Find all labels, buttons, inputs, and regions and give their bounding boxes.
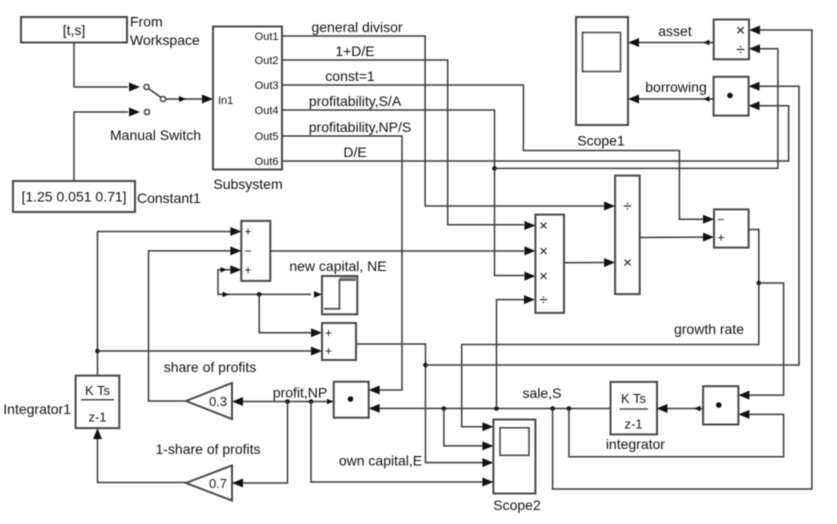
wire gain 0.3 output to sum1 input2	[149, 251, 231, 401]
wire profit product output to gain 0.3 input	[243, 399, 334, 404]
block sum3 minus plus	[703, 209, 749, 247]
wire Out3 const=1 to sum3 minus input	[282, 85, 703, 219]
svg-text:+: +	[244, 263, 251, 277]
svg-text:Out4: Out4	[255, 105, 279, 117]
svg-text:Workspace: Workspace	[130, 32, 200, 48]
wire sale branch up to product4 divide input	[497, 295, 536, 408]
svg-text:[t,s]: [t,s]	[63, 22, 86, 38]
svg-text:Manual Switch: Manual Switch	[110, 127, 201, 143]
node growth rate branch	[757, 281, 762, 286]
svg-text:×: ×	[539, 243, 548, 260]
block new capital NE step	[322, 276, 357, 314]
manual switch	[110, 83, 201, 144]
svg-text:×: ×	[539, 268, 548, 285]
node S/A branch	[492, 166, 497, 171]
svg-text:×: ×	[736, 23, 745, 40]
svg-text:Scope1: Scope1	[577, 133, 625, 149]
block sum2 plus plus	[322, 323, 356, 360]
block From Workspace [t,s]	[21, 14, 200, 49]
svg-text:Out6: Out6	[255, 156, 279, 168]
wire own capital E to borrowing product upper input	[426, 86, 800, 365]
svg-text:z-1: z-1	[88, 410, 106, 425]
wire growth rate branch to dot product upper input	[749, 283, 783, 395]
block integrator K Ts z-1	[606, 382, 668, 452]
svg-text:share of profits: share of profits	[164, 359, 257, 375]
svg-text:new capital, NE: new capital, NE	[289, 258, 386, 274]
node sale branch to feedback	[567, 406, 572, 411]
svg-text:growth rate: growth rate	[674, 321, 744, 337]
wire Integrator1 output up to sum1 input1	[98, 232, 231, 376]
wire sum1 output to product4 input2	[270, 250, 524, 252]
node Integrator1 output branch	[95, 349, 100, 354]
svg-text:Out2: Out2	[255, 55, 279, 67]
svg-text:Constant1: Constant1	[137, 190, 201, 206]
block Scope2	[482, 420, 541, 514]
svg-text:Out1: Out1	[255, 31, 279, 43]
wire dot product output to integrator input	[668, 406, 704, 412]
svg-text:÷: ÷	[539, 292, 547, 309]
wire gain 0.7 output to Integrator1 input	[98, 439, 187, 483]
svg-text:general divisor: general divisor	[311, 19, 402, 35]
node new capital junction	[257, 292, 262, 297]
svg-text:profit,NP: profit,NP	[273, 385, 327, 401]
block profit product dot	[334, 382, 380, 418]
wire sale feedback to dot product lower input	[569, 409, 784, 457]
wire sum2 output to own capital E node	[356, 344, 482, 463]
svg-text:+: +	[717, 230, 724, 244]
svg-text:−: −	[717, 212, 724, 226]
svg-text:1-share of profits: 1-share of profits	[155, 441, 260, 457]
wire Out5 NP/S to profit product upper input	[282, 136, 402, 390]
svg-text:+: +	[244, 225, 251, 239]
node sale branch to asset	[550, 406, 555, 411]
svg-text:z-1: z-1	[624, 417, 642, 432]
svg-text:From: From	[130, 14, 163, 30]
wire sum1 input3 from new capital node	[218, 267, 322, 298]
wire Out6 D/E to borrowing product lower input	[282, 106, 789, 161]
svg-text:×: ×	[539, 218, 548, 235]
svg-text:borrowing: borrowing	[645, 79, 706, 95]
svg-text:Integrator1: Integrator1	[3, 401, 71, 417]
svg-text:K Ts: K Ts	[621, 391, 647, 406]
gain 0.3 triangle	[186, 383, 243, 419]
wire Constant1 to switch lower input	[74, 112, 128, 181]
node sale branch to Scope2	[442, 406, 447, 411]
wire Out2 1+D/E to product4 input1	[282, 60, 524, 225]
svg-text:profitability,S/A: profitability,S/A	[309, 93, 402, 109]
svg-text:+: +	[325, 344, 332, 358]
gain 0.7 triangle	[186, 466, 243, 501]
block Scope1	[576, 17, 628, 149]
wire Integrator1 branch to sum2 input2	[98, 347, 323, 356]
svg-text:Out5: Out5	[255, 131, 279, 143]
block asset product x/	[714, 20, 760, 60]
svg-text:1+D/E: 1+D/E	[335, 43, 374, 59]
block sale dot product	[703, 386, 749, 424]
svg-text:÷: ÷	[736, 42, 745, 59]
node own capital E branch	[423, 363, 428, 368]
svg-text:×: ×	[623, 254, 632, 271]
wire sum3 output growth rate	[462, 230, 759, 427]
svg-text:Subsystem: Subsystem	[213, 176, 282, 192]
svg-text:sale,S: sale,S	[523, 385, 562, 401]
node profit to Scope2 branch	[309, 399, 314, 404]
svg-text:own capital,E: own capital,E	[339, 453, 422, 469]
svg-text:0.7: 0.7	[209, 476, 227, 491]
block divide tall	[604, 176, 640, 295]
block Subsystem	[213, 27, 283, 193]
svg-text:+: +	[325, 326, 332, 340]
svg-text:D/E: D/E	[343, 144, 366, 160]
wire divide block output to sum3 plus input	[640, 233, 714, 242]
svg-text:integrator: integrator	[606, 436, 665, 452]
svg-text:Out3: Out3	[255, 80, 279, 92]
wire new capital junction to sum2 input1	[259, 294, 322, 337]
svg-text:0.3: 0.3	[209, 394, 227, 409]
svg-text:In1: In1	[218, 95, 233, 107]
wire profit branch to Scope2 input4	[311, 402, 482, 483]
block borrowing product dot	[714, 77, 760, 116]
svg-text:K Ts: K Ts	[85, 383, 111, 398]
svg-text:Scope2: Scope2	[493, 497, 541, 513]
wire asset product to Scope1	[628, 38, 714, 47]
wire Out4 S/A down	[282, 110, 524, 276]
svg-text:−: −	[244, 244, 251, 258]
block product4 xxx divide	[524, 215, 564, 313]
block sum1 plus minus plus	[230, 221, 270, 281]
node profit to 0.7 branch	[285, 399, 290, 404]
svg-text:const=1: const=1	[325, 68, 375, 84]
wire S/A branch to asset divide input	[495, 49, 778, 169]
wire product4 output to divide block lower input	[564, 258, 615, 267]
wire sale branch to asset product upper input	[553, 30, 812, 489]
wire profit branch to gain 0.7 input	[243, 402, 288, 484]
wire sale branch to Scope2 input2	[444, 409, 494, 451]
wire sale S main line integrator output to profit product lower input	[380, 407, 611, 409]
wire switch output to Subsystem In1	[166, 95, 214, 104]
wire borrowing product to Scope1	[628, 95, 714, 104]
svg-text:profitability,NP/S: profitability,NP/S	[309, 119, 411, 135]
block Constant1	[13, 181, 201, 212]
svg-text:[1.25 0.051 0.71]: [1.25 0.051 0.71]	[21, 189, 126, 205]
svg-text:÷: ÷	[623, 198, 631, 215]
svg-text:asset: asset	[658, 23, 692, 39]
wire Out1 general divisor to divide block	[282, 36, 604, 206]
block Integrator1	[3, 376, 119, 440]
wire From Workspace to switch upper input	[74, 43, 128, 88]
node sale branch to product4 divide	[494, 406, 499, 411]
